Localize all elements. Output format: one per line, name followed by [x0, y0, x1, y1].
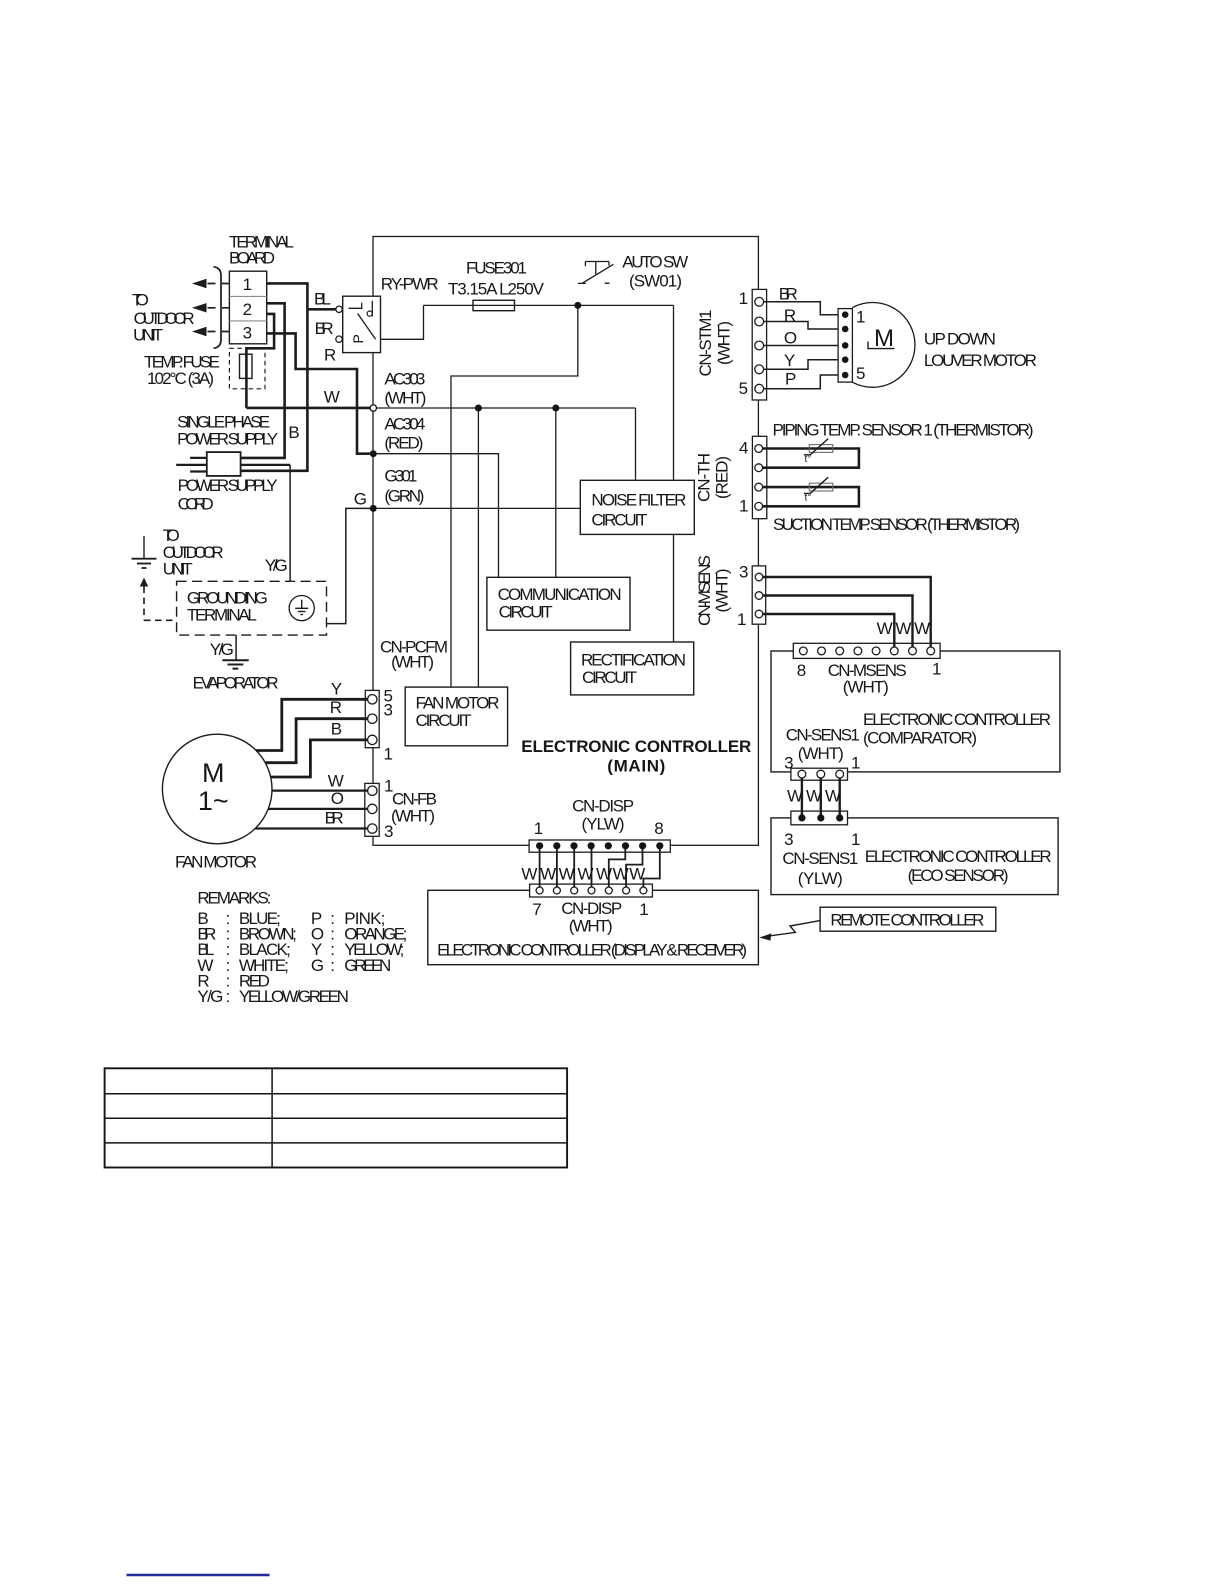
- svg-text:RY-PWR: RY-PWR: [381, 275, 439, 294]
- svg-text:3: 3: [784, 830, 793, 849]
- svg-text:G: G: [354, 490, 367, 509]
- svg-text:AUTO SW: AUTO SW: [622, 253, 688, 272]
- svg-text:W: W: [825, 787, 841, 806]
- fan motor circuit box: [405, 687, 507, 746]
- electronic controller comparator box: [771, 651, 1060, 772]
- svg-text:P: P: [350, 334, 366, 343]
- svg-text:ELECTRONIC CONTROLLER: ELECTRONIC CONTROLLER: [863, 710, 1051, 729]
- louver motor circle: [852, 303, 915, 388]
- relay RY-PWR box: [343, 296, 381, 352]
- wire W to AC303: [246, 407, 370, 410]
- svg-text:3: 3: [384, 822, 393, 841]
- terminal board box: [229, 271, 266, 344]
- terminal board cell dividers: [229, 296, 266, 321]
- power plug to Y/G: [241, 464, 291, 466]
- svg-text:W: W: [577, 865, 593, 884]
- svg-text:(ECO SENSOR): (ECO SENSOR): [908, 866, 1009, 885]
- svg-text:BL: BL: [314, 290, 331, 309]
- svg-text:(MAIN): (MAIN): [607, 757, 665, 776]
- junction at fuse line: [574, 302, 581, 309]
- wire terminal 2 through temp fuse: [246, 314, 274, 408]
- svg-text:O: O: [331, 789, 344, 808]
- relay coil mark: [349, 303, 362, 309]
- wire CN-STM1 pin2 R: [764, 322, 839, 330]
- svg-text:1: 1: [932, 660, 941, 679]
- CN-DISP WHT pins: [536, 887, 543, 894]
- svg-text:W: W: [914, 619, 930, 638]
- CN-PCFM pins: [368, 695, 377, 704]
- svg-text:O: O: [784, 329, 797, 348]
- wire CN-DISP jog 7to6: [626, 846, 642, 888]
- wire relay output to fuse line: [381, 305, 424, 339]
- svg-text:CN-SENS1: CN-SENS1: [782, 849, 858, 868]
- svg-text:3: 3: [739, 563, 748, 582]
- remote controller box: [820, 907, 996, 931]
- connector CN-TH body: [752, 436, 766, 518]
- svg-text:1: 1: [739, 497, 748, 516]
- electronic controller display receiver box: [428, 890, 759, 964]
- terminal board arrows to outdoor unit: [192, 279, 229, 336]
- wire CN-MSENS pin2 loop: [763, 596, 913, 649]
- svg-text:W: W: [328, 772, 344, 791]
- svg-text:R: R: [330, 698, 342, 717]
- svg-text:CIRCUIT: CIRCUIT: [582, 668, 637, 687]
- thermistor body 2: [809, 483, 833, 491]
- grounding terminal earth circle: [289, 596, 314, 621]
- svg-text:FAN MOTOR: FAN MOTOR: [175, 853, 257, 872]
- wire piping thermistor loop: [763, 449, 859, 468]
- svg-text:POWER SUPPLY: POWER SUPPLY: [177, 430, 278, 449]
- svg-text:TERMINAL: TERMINAL: [187, 606, 257, 625]
- dashed arrow to outdoor ground: [140, 578, 148, 587]
- thermistor strike 1: [804, 439, 828, 455]
- svg-text:W: W: [324, 388, 340, 407]
- svg-text:(WHT): (WHT): [391, 807, 435, 826]
- svg-text:(RED): (RED): [384, 434, 423, 453]
- junction AC303 a: [475, 405, 482, 412]
- connector CN-PCFM body: [365, 690, 379, 747]
- svg-text:2: 2: [243, 300, 252, 319]
- svg-text:YELLOW/GREEN: YELLOW/GREEN: [239, 987, 349, 1006]
- louver connector pins: [842, 311, 849, 318]
- wire G to grounding terminal: [327, 508, 374, 623]
- svg-text:8: 8: [797, 661, 806, 680]
- svg-text:1: 1: [856, 308, 865, 327]
- wires CN-DISP straight links: [540, 846, 592, 888]
- wire Y/G grounding to evaporator earth: [235, 635, 237, 659]
- node AC303 open: [370, 405, 376, 411]
- svg-text:4: 4: [739, 439, 748, 458]
- wire CN-STM1 pin1 BR to louver: [764, 302, 839, 315]
- wire CN-STM1 pin3 O: [764, 345, 839, 347]
- svg-text:1: 1: [739, 289, 748, 308]
- svg-text:1: 1: [851, 754, 860, 773]
- connector CN-DISP WHT body: [530, 884, 653, 897]
- junction G301: [370, 505, 377, 512]
- CN-MSENS 3pin pins: [755, 573, 763, 581]
- junction AC304: [370, 450, 377, 457]
- electronic controller eco sensor box: [771, 818, 1058, 895]
- svg-text:ELECTRONIC CONTROLLER: ELECTRONIC CONTROLLER: [865, 847, 1052, 866]
- svg-text:Y: Y: [331, 680, 342, 699]
- svg-text:5: 5: [739, 379, 748, 398]
- svg-text:EVAPORATOR: EVAPORATOR: [193, 674, 279, 693]
- svg-text:5: 5: [856, 364, 865, 383]
- svg-text:1: 1: [851, 830, 860, 849]
- svg-text:CN-MSENS: CN-MSENS: [695, 555, 714, 626]
- wire BL terminal 1: [241, 283, 308, 470]
- svg-text:FUSE301: FUSE301: [466, 259, 527, 278]
- svg-text:(RED): (RED): [713, 456, 732, 499]
- svg-text:P: P: [785, 370, 796, 389]
- svg-text:(WHT): (WHT): [384, 389, 426, 408]
- relay input BL: [336, 306, 342, 312]
- svg-text:BR: BR: [315, 319, 334, 338]
- svg-text:(WHT): (WHT): [715, 321, 734, 365]
- louver M underline: [868, 342, 895, 349]
- louver motor connector body: [838, 309, 852, 383]
- wire suction thermistor loop: [763, 487, 859, 506]
- connector CN-SENS1 YLW body: [791, 811, 848, 825]
- svg-text::: :: [226, 987, 231, 1006]
- svg-text:UP DOWN: UP DOWN: [924, 330, 996, 349]
- svg-text:102°C (3A): 102°C (3A): [147, 369, 214, 388]
- svg-text:AC303: AC303: [384, 370, 425, 389]
- wire CN-DISP jog 6to5: [609, 846, 626, 888]
- rectification circuit box: [571, 642, 694, 695]
- wire CN-SENS1 link 1: [839, 776, 841, 818]
- svg-text:Y/G: Y/G: [197, 987, 223, 1006]
- svg-text:3: 3: [384, 701, 393, 720]
- svg-text::: :: [330, 956, 335, 975]
- wire fuse301 line: [424, 304, 674, 306]
- svg-text:M: M: [874, 325, 894, 352]
- connector CN-MSENS 8pin body: [793, 643, 940, 658]
- wire fan motor W: [272, 789, 368, 791]
- svg-text:W: W: [613, 865, 629, 884]
- svg-text:CIRCUIT: CIRCUIT: [591, 511, 647, 530]
- svg-text:CORD: CORD: [178, 495, 214, 514]
- fuse FUSE301 body: [473, 300, 515, 310]
- connector CN-SENS1 WHT body: [791, 768, 848, 780]
- wire fan motor B: [271, 740, 368, 777]
- svg-text:T3.15A L250V: T3.15A L250V: [448, 280, 545, 299]
- svg-text:GREEN: GREEN: [344, 956, 391, 975]
- svg-text:TO: TO: [132, 291, 149, 310]
- svg-text:G: G: [311, 956, 324, 975]
- wire CN-MSENS pin3 loop: [763, 577, 931, 649]
- svg-text:W: W: [540, 865, 556, 884]
- connector CN-FB body: [365, 783, 379, 836]
- wire fan motor R: [265, 719, 367, 763]
- svg-text:W: W: [787, 787, 803, 806]
- svg-text:1: 1: [534, 819, 543, 838]
- svg-text:(YLW): (YLW): [582, 815, 625, 834]
- svg-text:CN-DISP: CN-DISP: [561, 899, 622, 918]
- junction AC303 b: [552, 405, 559, 412]
- svg-text:1: 1: [384, 745, 393, 764]
- svg-text:1: 1: [639, 900, 648, 919]
- ground symbol outdoor left: [132, 536, 157, 568]
- svg-text:B: B: [331, 720, 342, 739]
- svg-text:Y: Y: [784, 351, 795, 370]
- wire fan motor O: [268, 808, 367, 810]
- svg-text:R: R: [324, 346, 336, 365]
- svg-text:R: R: [784, 306, 796, 325]
- wire CN-SENS1 link 3: [801, 776, 803, 818]
- CN-MSENS 8pin pins: [799, 647, 807, 655]
- svg-text:(WHT): (WHT): [798, 744, 844, 763]
- relay switch blade: [358, 314, 376, 340]
- footnote rule: [127, 1574, 270, 1576]
- svg-text:CN-STM1: CN-STM1: [696, 310, 715, 377]
- svg-text:UNIT: UNIT: [163, 560, 193, 579]
- wire AC304 red: [373, 454, 498, 578]
- svg-text:W: W: [877, 619, 893, 638]
- temp fuse body: [240, 354, 253, 378]
- svg-text:COMMUNICATION: COMMUNICATION: [498, 585, 622, 604]
- fan motor circle: [162, 734, 272, 844]
- wire R terminal 3 to AC304: [267, 333, 370, 453]
- svg-text:FAN MOTOR: FAN MOTOR: [416, 694, 500, 713]
- wire fan motor Y: [256, 699, 368, 750]
- wire G301 green to noise filter: [373, 507, 580, 509]
- connector CN-MSENS 3pin body: [752, 566, 766, 624]
- svg-text:W: W: [895, 619, 911, 638]
- svg-text:(COMPARATOR): (COMPARATOR): [863, 729, 977, 748]
- svg-text:8: 8: [654, 819, 663, 838]
- wire CN-SENS1 link 2: [820, 776, 822, 818]
- svg-text:3: 3: [243, 324, 252, 343]
- svg-text:W: W: [806, 787, 822, 806]
- wire fan motor BR: [255, 827, 367, 829]
- thermistor body 1: [809, 445, 833, 453]
- svg-text:W: W: [559, 865, 575, 884]
- temp fuse dashed enclosure: [229, 348, 265, 389]
- svg-text:7: 7: [532, 900, 541, 919]
- svg-text:W: W: [596, 865, 612, 884]
- svg-text:RECTIFICATION: RECTIFICATION: [581, 651, 686, 670]
- thermistor strike 2: [804, 477, 828, 493]
- wire BL branch to relay: [307, 308, 336, 311]
- CN-DISP YLW pins: [536, 842, 543, 849]
- svg-text:ELECTRONIC CONTROLLER: ELECTRONIC CONTROLLER: [521, 737, 751, 756]
- svg-text:BR: BR: [779, 285, 798, 304]
- svg-text:REMARKS:: REMARKS:: [197, 889, 271, 908]
- svg-text:(SW01): (SW01): [629, 272, 682, 291]
- connector CN-STM1 body: [752, 289, 766, 400]
- svg-text:POWER SUPPLY: POWER SUPPLY: [178, 476, 278, 495]
- svg-text:LOUVER MOTOR: LOUVER MOTOR: [924, 351, 1037, 370]
- svg-text:REMOTE CONTROLLER: REMOTE CONTROLLER: [830, 911, 984, 930]
- wire B terminal 2: [241, 303, 285, 458]
- CN-SENS1 YLW pins: [798, 814, 805, 821]
- svg-text:W: W: [521, 865, 537, 884]
- wire Y/G cord to grounding terminal: [289, 465, 291, 581]
- svg-text:(WHT): (WHT): [391, 653, 434, 672]
- remote controller zigzag arrow: [767, 921, 821, 937]
- svg-text:1: 1: [737, 610, 746, 629]
- svg-text:(WHT): (WHT): [569, 917, 613, 936]
- svg-text:AC304: AC304: [384, 415, 425, 434]
- svg-text:t°: t°: [805, 454, 812, 465]
- wire AC303 branch to communication circuit: [555, 408, 557, 577]
- svg-text:CIRCUIT: CIRCUIT: [499, 603, 553, 622]
- power plug prongs: [176, 458, 207, 472]
- earth mark inside grounding circle: [295, 600, 308, 615]
- svg-text:W: W: [629, 865, 645, 884]
- svg-text:CN-DISP: CN-DISP: [572, 797, 634, 816]
- wire junction drop to fan motor circuit: [451, 305, 578, 687]
- grounding terminal dashed box: [177, 581, 327, 635]
- cable bundle bracket: [214, 267, 222, 348]
- CN-SENS1 WHT pins: [798, 770, 806, 778]
- electronic controller main outline: [373, 237, 758, 846]
- svg-text:ELECTRONIC CONTROLLER (DISPLAY: ELECTRONIC CONTROLLER (DISPLAY & RECEIVE…: [437, 941, 747, 960]
- svg-text:(GRN): (GRN): [384, 487, 424, 506]
- switch SW01 symbol: [578, 262, 614, 284]
- noise filter circuit box: [580, 480, 694, 534]
- relay input BR: [336, 336, 342, 342]
- svg-text:PIPING TEMP. SENSOR 1 (THERMIS: PIPING TEMP. SENSOR 1 (THERMISTOR): [773, 421, 1034, 440]
- svg-text:M: M: [202, 758, 225, 788]
- wire CN-STM1 pin4 Y: [764, 360, 839, 370]
- CN-STM1 pins: [755, 297, 764, 306]
- svg-text:Y/G: Y/G: [210, 640, 234, 659]
- svg-text:1~: 1~: [198, 786, 229, 816]
- wire AC303 branch to fan motor circuit: [477, 408, 479, 687]
- svg-text:NOISE FILTER: NOISE FILTER: [591, 491, 686, 510]
- svg-text:B: B: [288, 423, 299, 442]
- svg-text:(WHT): (WHT): [713, 569, 732, 613]
- svg-text:3: 3: [784, 754, 793, 773]
- svg-text:CIRCUIT: CIRCUIT: [416, 711, 472, 730]
- CN-TH pins: [755, 445, 763, 453]
- svg-text:t°: t°: [805, 493, 812, 504]
- wire CN-DISP jog 8to7: [643, 846, 659, 888]
- svg-text:1: 1: [243, 275, 252, 294]
- relay contact d mark: [371, 301, 373, 317]
- communication circuit box: [487, 577, 630, 630]
- svg-text:(YLW): (YLW): [798, 869, 843, 888]
- svg-text:(WHT): (WHT): [843, 678, 889, 697]
- svg-text:UNIT: UNIT: [133, 326, 163, 345]
- wire AC303 white: [376, 408, 635, 480]
- wire CN-STM1 pin5 P: [764, 375, 839, 389]
- ground symbol evaporator: [222, 660, 248, 668]
- wire vertical bus to rectification circuit: [673, 305, 675, 642]
- svg-text:BR: BR: [325, 809, 344, 828]
- svg-text:CN-SENS1: CN-SENS1: [786, 726, 860, 745]
- svg-text:CN-TH: CN-TH: [695, 453, 714, 502]
- svg-text:Y/G: Y/G: [265, 556, 288, 575]
- wire CN-MSENS pin1 loop: [763, 614, 894, 649]
- svg-text:G301: G301: [384, 467, 417, 486]
- svg-text:SUCTION TEMP. SENSOR (THERMIST: SUCTION TEMP. SENSOR (THERMISTOR): [773, 515, 1020, 534]
- power plug box: [207, 452, 241, 476]
- svg-text:BOARD: BOARD: [229, 249, 275, 268]
- connector CN-DISP YLW body: [529, 840, 670, 852]
- CN-FB pins: [368, 786, 377, 795]
